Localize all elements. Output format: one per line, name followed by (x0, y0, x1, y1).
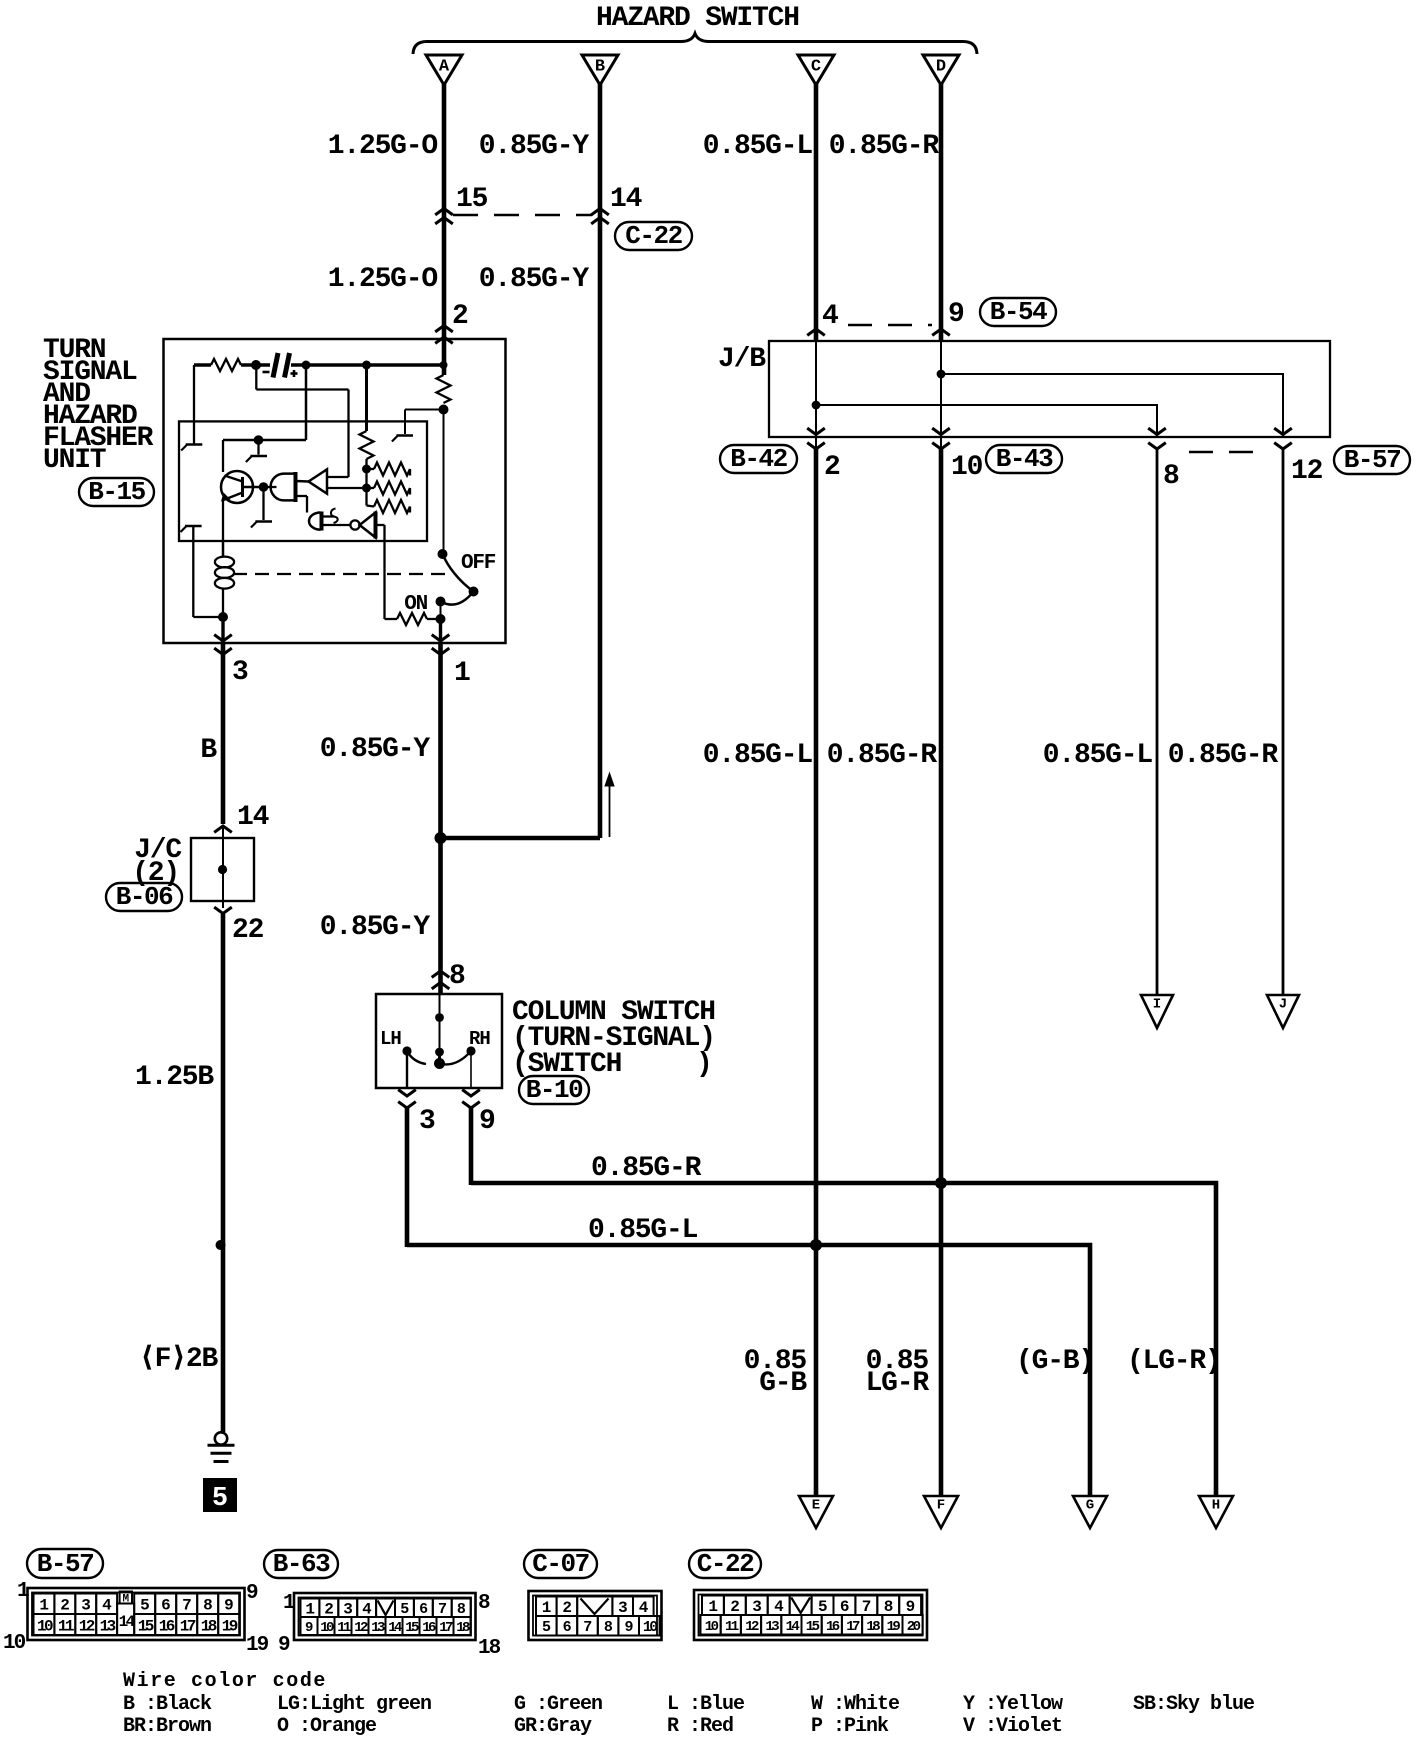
terminal plate P3 with wire to pin3 node (185, 525, 202, 528)
resistor R3 (vertical) (360, 431, 374, 459)
node at flasher pin 3 exit (218, 612, 228, 622)
svg-text:B-43: B-43 (996, 444, 1053, 474)
wire 0.85G-Y flasher pin1 down to column switch (438, 643, 443, 994)
switch ON arc (441, 592, 474, 605)
wire from R3 node down the resistor column (365, 365, 368, 431)
connector pin C (hazard switch) (798, 55, 834, 85)
svg-text:12: 12 (1291, 456, 1323, 487)
buffer amp U2 (left-pointing triangle) (309, 469, 328, 493)
svg-text:LG:Light green: LG:Light green (277, 1693, 431, 1716)
svg-text:F: F (937, 1498, 945, 1514)
svg-text:10: 10 (37, 1617, 53, 1635)
node resistor bank upper (362, 465, 371, 474)
svg-text:): ) (696, 1049, 712, 1080)
connector crossing J/B pin 4 entry (807, 329, 825, 335)
svg-text:SB:Sky blue: SB:Sky blue (1133, 1693, 1255, 1716)
svg-text:0.85G-R: 0.85G-R (827, 740, 938, 771)
svg-text:13: 13 (100, 1617, 116, 1635)
connector label B-63 (pinout) (264, 1549, 338, 1579)
connector B-57 pinout box (28, 1588, 245, 1640)
svg-text:18: 18 (478, 1637, 501, 1660)
wire 0.85G-L from J/B pin2 to E (815, 437, 817, 449)
svg-text:14: 14 (237, 802, 269, 833)
wire 0.85G-L from J/B pin8 to I (1156, 449, 1159, 995)
svg-text:11: 11 (58, 1617, 74, 1635)
turn signal and hazard flasher unit outer box B-15 (164, 339, 506, 643)
svg-text:3: 3 (343, 1601, 352, 1619)
svg-text:7: 7 (862, 1598, 871, 1616)
connector crossing J/B pin 9 entry (932, 329, 950, 335)
svg-text:0.85G-Y: 0.85G-Y (479, 264, 590, 295)
svg-text:B-57: B-57 (1344, 445, 1400, 475)
svg-text:V :Violet: V :Violet (963, 1715, 1062, 1738)
connector label B-06 (106, 882, 182, 912)
resistor R2 (vertical under wire A) (437, 375, 451, 403)
RH contact (466, 1046, 475, 1055)
svg-text:6: 6 (161, 1597, 170, 1615)
ground reference box 5 (203, 1478, 237, 1512)
node resistor bank middle (362, 484, 371, 493)
svg-text:4: 4 (362, 1601, 372, 1619)
svg-text:4: 4 (822, 301, 838, 332)
J/B internal crossover to pin 12 (941, 374, 1283, 437)
svg-text:⟨F⟩2B: ⟨F⟩2B (139, 1344, 219, 1375)
connector label C-22 (615, 221, 692, 251)
lever arc from RH (441, 1051, 471, 1064)
svg-text:2: 2 (562, 1599, 571, 1617)
svg-text:8: 8 (457, 1601, 466, 1618)
node on top rail at R3 branch (362, 361, 371, 370)
svg-text:E: E (812, 1498, 820, 1514)
svg-text:16: 16 (159, 1617, 175, 1635)
svg-text:Y :Yellow: Y :Yellow (963, 1693, 1063, 1716)
svg-text:9: 9 (948, 299, 964, 330)
svg-text:B-15: B-15 (88, 477, 145, 507)
connector crossing at flasher pin 2 (435, 326, 453, 344)
svg-text:9: 9 (224, 1597, 233, 1615)
column switch box B-10 (376, 994, 502, 1088)
connector pin I (1141, 995, 1173, 1028)
svg-text:8: 8 (449, 961, 465, 992)
wire loop from node 256 to amp input column (255, 365, 257, 390)
svg-text:LH: LH (380, 1028, 401, 1050)
svg-text:B-63: B-63 (273, 1549, 330, 1579)
connector label C-22 (pinout) (689, 1549, 761, 1579)
connector crossing column switch pin 8 (432, 971, 450, 989)
J/B internal wire from pin9 (940, 341, 942, 437)
svg-text:14: 14 (610, 184, 642, 215)
svg-text:8: 8 (604, 1619, 613, 1636)
wire 0.85G-R column pin9 to H (471, 1183, 1216, 1496)
connector pin E (799, 1496, 833, 1528)
connector pin F (924, 1496, 958, 1528)
svg-text:3: 3 (752, 1598, 761, 1616)
svg-text:A: A (439, 58, 450, 77)
svg-text:15: 15 (456, 184, 488, 215)
resistor R4 (bank top) (367, 468, 375, 470)
connector label B-57 (pinout) (27, 1549, 103, 1579)
svg-text:1: 1 (17, 1580, 29, 1603)
direction arrow up (609, 784, 611, 837)
wire from R2 node to OFF contact (443, 410, 445, 555)
svg-text:8: 8 (1163, 461, 1179, 492)
connector crossing column pin 9 (462, 1090, 480, 1108)
svg-text:5: 5 (140, 1597, 149, 1615)
svg-text:3: 3 (618, 1599, 627, 1617)
svg-text:4: 4 (102, 1597, 112, 1615)
svg-text:HAZARD SWITCH: HAZARD SWITCH (596, 3, 799, 34)
svg-text:1.25G-O: 1.25G-O (328, 264, 438, 295)
svg-text:7: 7 (438, 1601, 447, 1618)
node at Q1 base lead (259, 482, 269, 492)
svg-text:G-B: G-B (759, 1368, 807, 1399)
svg-text:1: 1 (305, 1601, 314, 1619)
switch pivot (469, 587, 479, 597)
junction connector J/C (2) box B-06 (222, 826, 224, 908)
svg-text:L :Blue: L :Blue (667, 1693, 745, 1716)
connector label B-57 (1334, 445, 1410, 475)
wire 0.85G-R from J/B pin10 to F (940, 437, 942, 449)
svg-text:4: 4 (639, 1599, 649, 1617)
connector label C-07 (pinout) (524, 1549, 597, 1579)
ground stub G1 (257, 440, 259, 455)
svg-text:15: 15 (138, 1617, 154, 1635)
dashed connector line between pin 15 and 14 (453, 214, 592, 217)
svg-text:H: H (1212, 1498, 1220, 1514)
relay coil L1 (222, 541, 224, 557)
connector crossing column pin 3 (398, 1090, 416, 1108)
wire 1.25B down to ground (221, 914, 226, 1432)
brace over hazard switch connectors (413, 34, 977, 55)
svg-text:7: 7 (583, 1619, 592, 1636)
wire B (black) flasher pin3 down to J/C (221, 643, 226, 824)
svg-text:1: 1 (542, 1599, 551, 1617)
svg-text:B :Black: B :Black (123, 1693, 212, 1716)
svg-text:Wire color code: Wire color code (123, 1670, 327, 1693)
junction block J/B box (769, 341, 1330, 437)
switch lever (443, 554, 474, 592)
node junction with hazard feed (435, 832, 447, 844)
node on base rail (254, 435, 264, 445)
flasher internal top rail (194, 363, 211, 366)
resistor R6 (bank bottom) (367, 506, 375, 507)
svg-text:0.85G-R: 0.85G-R (829, 131, 940, 162)
U2 input line lower to resistor bank (327, 487, 367, 489)
svg-text:W :White: W :White (811, 1693, 900, 1716)
svg-text:19: 19 (246, 1634, 269, 1657)
svg-text:P :Pink: P :Pink (811, 1715, 889, 1738)
svg-text:0.85G-Y: 0.85G-Y (320, 734, 431, 765)
svg-text:7: 7 (182, 1597, 191, 1615)
svg-text:3: 3 (81, 1597, 90, 1615)
inverter output wire (377, 524, 385, 526)
U1a output to buffer (296, 480, 309, 483)
svg-text:(LG-R): (LG-R) (1127, 1346, 1221, 1377)
connector pin J (1267, 995, 1299, 1028)
svg-text:(G-B): (G-B) (1016, 1346, 1094, 1377)
svg-text:8: 8 (884, 1598, 893, 1616)
wire C 0.85G-L vertical (814, 84, 819, 341)
base lead of Q1 (244, 486, 263, 489)
svg-text:C: C (811, 58, 821, 77)
wire 0.85G-R from J/B pin12 to J (1282, 449, 1285, 995)
svg-text:OFF: OFF (461, 552, 496, 575)
J/B internal crossover to pin 8 (816, 405, 1157, 437)
svg-text:6: 6 (563, 1619, 572, 1636)
svg-text:0.85G-L: 0.85G-L (588, 1215, 698, 1246)
wire 0.85G-L column pin3 to G (407, 1245, 1090, 1496)
connector C-22 crossing on wire A, pin 15 (435, 209, 453, 224)
svg-text:C-07: C-07 (532, 1549, 588, 1579)
node on top rail left of C1 (251, 360, 261, 370)
svg-text:B-54: B-54 (990, 297, 1047, 327)
switch OFF contact (438, 549, 448, 559)
svg-text:9: 9 (278, 1634, 290, 1657)
ground symbol (215, 1432, 227, 1444)
svg-text:R :Red: R :Red (667, 1715, 733, 1738)
svg-text:B-42: B-42 (730, 444, 787, 474)
U1a lower output to U1b (296, 495, 307, 497)
svg-text:12: 12 (79, 1617, 95, 1635)
svg-text:I: I (1153, 997, 1161, 1013)
svg-text:1: 1 (708, 1598, 717, 1616)
U1b output to inverter (323, 524, 351, 526)
connector label B-54 (980, 297, 1056, 327)
AND gate U1b (small, left-rounded) (309, 513, 321, 530)
svg-text:0.85G-R: 0.85G-R (1168, 740, 1279, 771)
terminal plate P1 (186, 443, 203, 446)
J/B internal node on D wire (937, 370, 946, 379)
svg-text:19: 19 (222, 1617, 238, 1635)
svg-text:1: 1 (283, 1592, 295, 1615)
AND gate U1a (D-shape) (271, 474, 296, 501)
svg-text:4: 4 (774, 1598, 784, 1616)
connector crossing J/C pin 14 (214, 826, 232, 832)
svg-text:LG-R: LG-R (866, 1368, 930, 1399)
svg-text:0.85G-Y: 0.85G-Y (479, 131, 590, 162)
svg-text:J/B: J/B (718, 344, 766, 375)
connector crossing J/B pin 12 exit (1274, 428, 1292, 449)
connector pin H (1199, 1496, 1233, 1528)
svg-text:2: 2 (452, 301, 468, 332)
resistor R5 (bank middle) (367, 487, 375, 489)
U2 input feedback line upper (327, 476, 349, 478)
node G-R joins wire D (935, 1177, 947, 1189)
node at flasher pin 1 exit (436, 614, 446, 624)
connector pin D (hazard switch) (923, 55, 959, 85)
wire column pin3 to G-L run (405, 1108, 410, 1247)
flasher pin 1 exit wire (439, 619, 442, 643)
svg-text:9: 9 (246, 1582, 258, 1605)
connector B-63 pinout box (294, 1593, 476, 1640)
svg-text:5: 5 (400, 1601, 409, 1618)
flasher pin 3 exit wire (221, 617, 224, 643)
svg-text:B-57: B-57 (37, 1549, 93, 1579)
svg-text:BR:Brown: BR:Brown (123, 1715, 211, 1738)
hazard feed horizontal from wire B (441, 836, 598, 838)
wire A 1.25G-O vertical (442, 84, 447, 375)
svg-text:G :Green: G :Green (514, 1693, 602, 1716)
svg-text:18: 18 (201, 1617, 217, 1635)
svg-text:6: 6 (419, 1601, 428, 1618)
connector C-07 pinout box (529, 1591, 662, 1640)
svg-text:0.85G-L: 0.85G-L (703, 740, 813, 771)
svg-text:1.25G-O: 1.25G-O (328, 131, 438, 162)
wire D 0.85G-R vertical (939, 84, 944, 341)
svg-text:10: 10 (3, 1632, 26, 1655)
svg-text:RH: RH (469, 1028, 490, 1050)
svg-text:1: 1 (39, 1597, 48, 1615)
RH wire inside box (470, 1051, 472, 1088)
svg-text:8: 8 (478, 1592, 490, 1615)
svg-text:GR:Gray: GR:Gray (514, 1715, 592, 1738)
wire ON contact to resistor node (440, 602, 442, 620)
connector crossing J/B pin 8 exit (1148, 428, 1166, 449)
U1b output with hook (323, 515, 335, 517)
svg-text:0.85G-Y: 0.85G-Y (320, 912, 431, 943)
svg-text:9: 9 (479, 1106, 495, 1137)
LH contact (402, 1046, 411, 1055)
svg-text:2: 2 (824, 452, 840, 483)
contact plate branch from R2 node (405, 409, 444, 411)
svg-text:2: 2 (730, 1598, 739, 1616)
svg-text:J: J (1279, 997, 1287, 1013)
wire from top rail down to plate (left) (193, 365, 195, 444)
svg-text:22: 22 (232, 915, 264, 946)
lever arc from LH (407, 1051, 426, 1064)
splice node on 1.25B wire (216, 1240, 226, 1250)
connector label B-43 (986, 444, 1062, 474)
B-57 key cell and pin 14 (117, 1604, 134, 1636)
svg-text:3: 3 (232, 657, 248, 688)
svg-text:9: 9 (305, 1620, 313, 1636)
svg-text:B: B (200, 735, 217, 766)
svg-text:B: B (595, 58, 605, 77)
node G-L joins wire C (810, 1239, 822, 1251)
ground stub G2 under base node (262, 487, 264, 520)
svg-text:B-06: B-06 (116, 882, 173, 912)
connector crossing J/C pin 22 (214, 907, 232, 913)
transistor Q1 (221, 471, 253, 503)
svg-text:2: 2 (324, 1601, 333, 1619)
connector C-22 crossing on wire B, pin 14 (591, 209, 609, 224)
wire from node 306 down to base rail (305, 365, 308, 440)
connector crossing J/B pin 10 exit (932, 428, 950, 449)
svg-text:5: 5 (818, 1598, 827, 1616)
svg-text:17: 17 (180, 1617, 196, 1635)
connector pin A (hazard switch) (426, 55, 462, 85)
node under R2 (439, 405, 449, 415)
LH wire inside box (406, 1051, 408, 1088)
node at wire A junction with top rail (440, 361, 448, 369)
connector crossing flasher pin 1 (432, 635, 450, 655)
wire from base rail down to transistor (222, 440, 224, 472)
connector label B-42 (720, 444, 797, 474)
svg-text:8: 8 (203, 1597, 212, 1615)
svg-text:10: 10 (951, 452, 983, 483)
inverter U3 with input bubble (350, 520, 359, 529)
capacitor C1 (electrolytic, polarized) (273, 353, 278, 378)
svg-text:O :Orange: O :Orange (277, 1715, 377, 1738)
node on top rail right of C1 (302, 361, 311, 370)
mechanical dashed link coil to switch (233, 573, 452, 575)
wire B 0.85G-Y vertical (598, 84, 603, 838)
svg-text:9: 9 (906, 1598, 915, 1616)
connector C-22 pinout box (694, 1590, 927, 1640)
svg-text:1.25B: 1.25B (135, 1062, 214, 1093)
svg-text:9: 9 (624, 1619, 633, 1636)
resistor R1 (top left, horizontal) (211, 359, 241, 371)
svg-text:6: 6 (840, 1598, 849, 1616)
J/B internal node on C wire (812, 401, 821, 410)
connector pin B (hazard switch) (582, 55, 618, 85)
connector label B-10 (519, 1075, 589, 1105)
connector crossing J/B pin 2 exit (807, 428, 825, 449)
column switch common wire (439, 994, 441, 1052)
dashed connector line pins 4-9 (848, 324, 932, 327)
svg-text:M: M (122, 1594, 129, 1606)
svg-text:UNIT: UNIT (43, 445, 106, 476)
svg-text:2: 2 (60, 1597, 69, 1615)
svg-text:B-10: B-10 (526, 1075, 583, 1105)
svg-text:5: 5 (212, 1484, 228, 1514)
svg-text:G: G (1086, 1498, 1094, 1514)
resistor R7 (ON branch) (385, 618, 398, 620)
base rail horizontal y440 (223, 439, 306, 442)
svg-text:D: D (936, 58, 946, 77)
flasher internal logic box (inner box) (179, 421, 427, 541)
switch ON contact (436, 597, 446, 607)
svg-text:5: 5 (542, 1619, 551, 1636)
svg-text:1: 1 (454, 658, 470, 689)
wire column pin9 to G-R run (469, 1108, 474, 1185)
connector pin G (1073, 1496, 1107, 1528)
svg-text:0.85G-L: 0.85G-L (1043, 740, 1153, 771)
column switch moving contact (438, 1052, 441, 1061)
connector crossing flasher pin 3 (214, 635, 232, 655)
svg-text:3: 3 (419, 1106, 435, 1137)
svg-text:C-22: C-22 (625, 221, 682, 251)
J/B internal wire from pin4 (815, 341, 817, 437)
svg-text:C-22: C-22 (697, 1549, 754, 1579)
svg-text:0.85G-R: 0.85G-R (591, 1153, 702, 1184)
connector label B-15 (79, 477, 154, 507)
dashed connector line pins 8-12 (1189, 451, 1264, 454)
svg-text:0.85G-L: 0.85G-L (703, 131, 813, 162)
